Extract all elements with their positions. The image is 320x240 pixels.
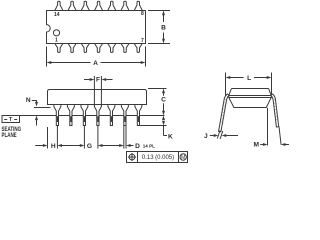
- svg-text:C: C: [161, 97, 166, 104]
- svg-text:1: 1: [55, 37, 58, 43]
- svg-text:7: 7: [141, 38, 144, 44]
- svg-text:M: M: [181, 155, 185, 161]
- svg-text:M: M: [253, 141, 259, 148]
- svg-text:0.13 (0.005): 0.13 (0.005): [142, 154, 174, 161]
- svg-text:D: D: [135, 143, 140, 150]
- svg-text:J: J: [204, 133, 208, 140]
- svg-text:14: 14: [54, 12, 60, 18]
- svg-text:A: A: [93, 60, 98, 67]
- svg-text:L: L: [247, 75, 251, 82]
- svg-text:8: 8: [141, 11, 144, 17]
- svg-text:N: N: [26, 97, 31, 104]
- svg-text:G: G: [87, 143, 92, 150]
- svg-text:PLANE: PLANE: [2, 132, 17, 139]
- svg-text:14 PL: 14 PL: [143, 144, 155, 149]
- svg-text:H: H: [51, 143, 56, 150]
- svg-text:B: B: [161, 25, 166, 32]
- svg-text:F: F: [96, 77, 100, 84]
- svg-text:K: K: [168, 133, 173, 140]
